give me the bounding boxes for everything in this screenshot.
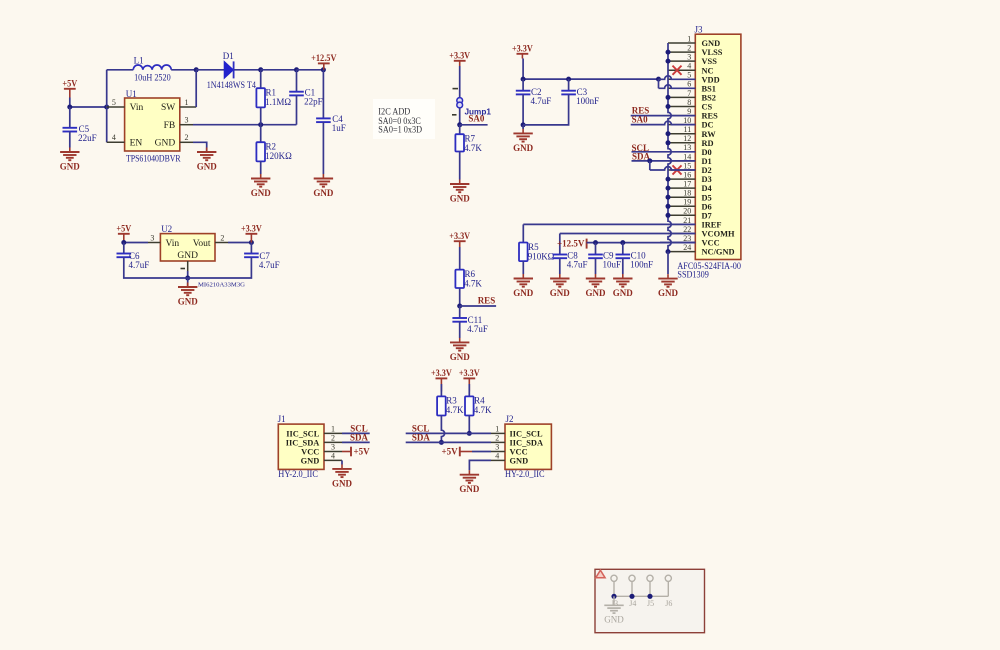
resistor R1 (256, 88, 291, 108)
wire C11 to ground (459, 322, 461, 338)
svg-text:I2C ADD: I2C ADD (378, 106, 410, 116)
wire top rail to L1 (107, 69, 134, 71)
pin 18 J3 D5 (668, 189, 712, 203)
node C1 top junction (294, 67, 299, 72)
svg-text:GND: GND (251, 188, 272, 198)
svg-text:GND: GND (459, 484, 480, 494)
wire L1 to SW node (171, 69, 196, 71)
wire C10 to ground (622, 258, 624, 274)
svg-text:2: 2 (687, 44, 691, 53)
capacitor C9 (588, 250, 621, 269)
mounting block frame (595, 569, 705, 632)
svg-text:+12.5V: +12.5V (311, 53, 337, 63)
wire C2 top (522, 79, 524, 91)
pin 1 J2 (491, 425, 505, 434)
net label RES at J3 (631, 105, 696, 115)
wire R7 to ground (459, 152, 461, 180)
pin 1 U1 SW (180, 98, 196, 107)
pin 5 J3 VDD (668, 71, 720, 85)
svg-text:Vin: Vin (130, 103, 144, 113)
ground C8 GND (550, 274, 571, 298)
svg-text:J5: J5 (647, 599, 654, 608)
wire Vin vertical branch (106, 70, 108, 143)
wire SDA branch to pin 15 (649, 161, 651, 170)
svg-text:U1: U1 (126, 89, 137, 99)
node J3 bus pin 2 (666, 50, 671, 55)
node Vin branch junction (104, 105, 109, 110)
capacitor C6 (117, 251, 150, 270)
pin 15 J3 D2 (668, 161, 712, 175)
svg-text:18: 18 (683, 189, 691, 198)
svg-text:10uH 2520: 10uH 2520 (134, 73, 171, 83)
ground C5 GND (60, 148, 81, 172)
svg-text:EN: EN (130, 139, 143, 149)
svg-text:GND: GND (450, 193, 471, 203)
svg-text:13: 13 (683, 143, 691, 152)
wire top rail to C1 (296, 70, 298, 92)
svg-text:6: 6 (687, 80, 691, 89)
wire C4 to ground (322, 122, 324, 174)
wire +3.3V to R6 (459, 247, 461, 270)
node C10 junction (620, 240, 625, 245)
svg-text:SSD1309: SSD1309 (677, 269, 709, 279)
wire +3.3V to R4 (468, 384, 470, 397)
svg-text:4: 4 (112, 133, 116, 142)
svg-text:5: 5 (687, 71, 691, 80)
wire C9 to ground (595, 258, 597, 274)
wire C6 to ground rail (123, 243, 125, 254)
svg-text:IIC_SDA: IIC_SDA (510, 438, 544, 447)
wire C3 top (568, 79, 570, 91)
wire RES node to C11 (459, 306, 461, 318)
svg-text:16: 16 (683, 171, 691, 180)
svg-text:RES: RES (478, 295, 496, 305)
wire rail to ground (187, 278, 189, 287)
power port +3.3V at R3 (431, 368, 452, 392)
svg-text:+3.3V: +3.3V (449, 50, 470, 60)
svg-text:100nF: 100nF (576, 96, 599, 106)
svg-text:22pF: 22pF (304, 96, 323, 106)
pin 1 J1 (324, 425, 342, 434)
wire SA0 node to R7 (459, 125, 461, 134)
pin 2 Jump1 (452, 114, 457, 116)
pin 6 J3 BS1 (668, 80, 716, 94)
node mounting junction (647, 594, 652, 599)
svg-text:9: 9 (687, 107, 691, 116)
svg-text:GND: GND (450, 352, 471, 362)
wire C6 bottom (124, 257, 188, 278)
wire C7 bottom to ground rail (188, 257, 252, 278)
mounting hole J6 pad (665, 575, 671, 596)
pin 2 J1 (324, 434, 342, 443)
power port +3.3V at Jump1 (449, 50, 470, 66)
net label SA0 (460, 114, 488, 125)
pin 16 J3 D3 (668, 171, 712, 185)
power port +12.5V output (311, 53, 337, 70)
pin 22 J3 VCOMH (668, 225, 735, 239)
svg-text:120KΩ: 120KΩ (265, 151, 292, 161)
wire +3.3V to R3 (440, 384, 442, 397)
svg-text:GND: GND (332, 478, 353, 488)
svg-text:J2: J2 (506, 414, 514, 424)
pin 7 J3 BS2 (668, 89, 716, 103)
pin 21 J3 IREF (668, 216, 722, 230)
connector J1 body (278, 414, 324, 479)
svg-text:R7: R7 (465, 134, 476, 144)
svg-text:+5V: +5V (62, 78, 77, 88)
pin 4 J2 (491, 452, 505, 461)
svg-text:21: 21 (683, 216, 691, 225)
svg-text:4: 4 (687, 62, 691, 71)
wire R6 to RES node (459, 288, 461, 306)
warning triangle (596, 570, 605, 578)
svg-text:4.7uF: 4.7uF (567, 259, 588, 269)
svg-text:3: 3 (150, 233, 154, 242)
wire SW node to D1 anode (196, 69, 224, 71)
ground C4 GND (313, 174, 334, 198)
node FB/R1/R2 junction (258, 122, 263, 127)
svg-text:+3.3V: +3.3V (431, 368, 452, 378)
svg-text:D2: D2 (702, 166, 712, 175)
node J3 bus pin 19 (666, 204, 671, 209)
svg-text:RW: RW (702, 130, 717, 139)
IC U1 body (125, 89, 181, 163)
node J3 bus pin 24 (666, 249, 671, 254)
svg-text:GND: GND (702, 39, 721, 48)
wire C5 to ground (69, 132, 71, 148)
resistor R3 (437, 396, 464, 416)
svg-text:NC/GND: NC/GND (702, 248, 735, 257)
node R3/SDA junction (439, 440, 444, 445)
node C6 junction (121, 240, 126, 245)
svg-text:VSS: VSS (702, 57, 718, 66)
net label SA0 at J3 (631, 114, 696, 124)
net label SDA at J2 (406, 433, 491, 443)
inductor L1 (133, 56, 171, 83)
svg-text:R6: R6 (465, 269, 476, 279)
capacitor C8 (553, 250, 588, 269)
node C2/C3 ground junction (521, 122, 526, 127)
power port +3.3V rail (512, 43, 533, 58)
svg-text:FB: FB (164, 121, 176, 131)
svg-text:17: 17 (683, 180, 691, 189)
svg-text:R2: R2 (266, 142, 277, 152)
svg-text:4.7uF: 4.7uF (129, 260, 150, 270)
ground R2 GND (251, 174, 272, 198)
resistor R4 (465, 396, 492, 416)
node +5V/C5 junction (67, 105, 72, 110)
svg-text:1: 1 (687, 34, 691, 43)
pin 9 J3 RES (668, 107, 718, 121)
pin 1 J3 GND (668, 34, 720, 48)
wire U2 GND to bottom rail (187, 271, 189, 278)
svg-text:IIC_SDA: IIC_SDA (286, 438, 320, 447)
node U2 ground rail junction (185, 276, 190, 281)
wire top rail to R1 (260, 70, 262, 88)
svg-text:2: 2 (331, 434, 335, 443)
svg-text:J3: J3 (695, 25, 704, 35)
svg-text:5: 5 (112, 98, 116, 107)
pin 23 J3 VCC (668, 234, 720, 248)
svg-text:23: 23 (683, 234, 691, 243)
wire +5V stem to node (69, 98, 71, 108)
svg-text:3: 3 (331, 443, 335, 452)
pin 5 U1 Vin (107, 98, 125, 107)
svg-text:4: 4 (331, 452, 335, 461)
pin 14 J3 D1 (668, 152, 712, 166)
resistor R5 (519, 242, 555, 261)
node J3 bus pin 20 (666, 213, 671, 218)
svg-text:910KΩ: 910KΩ (528, 251, 555, 261)
no-connect X pin 15 (673, 165, 682, 174)
no-connect X pin 4 (673, 66, 682, 75)
wire C1 node to +12.5V node (297, 69, 324, 71)
node C3 top junction (566, 77, 571, 82)
svg-text:GND: GND (197, 161, 218, 171)
power port +3.3V at R6 (449, 231, 470, 247)
svg-text:4.7K: 4.7K (464, 143, 482, 153)
svg-text:TPS61040DBVR: TPS61040DBVR (126, 153, 181, 163)
power port +3.3V at R4 (459, 368, 480, 392)
wire +12.5V node to C4 (322, 70, 324, 119)
svg-text:IIC_SCL: IIC_SCL (286, 429, 319, 438)
wire C7 top (250, 243, 252, 254)
svg-text:4.7K: 4.7K (474, 405, 492, 415)
svg-text:22uF: 22uF (78, 133, 97, 143)
mounting hole J4 pad (629, 575, 635, 596)
svg-text:HY-2.0_IIC: HY-2.0_IIC (278, 469, 318, 479)
svg-text:D4: D4 (702, 184, 713, 193)
svg-text:J6: J6 (665, 599, 672, 608)
connector J3 body (695, 25, 741, 260)
node R4/SCL junction (467, 431, 472, 436)
svg-text:SA0: SA0 (632, 114, 649, 124)
ground mounting gray (604, 596, 624, 624)
connector J2 body (505, 414, 551, 479)
svg-text:CS: CS (702, 103, 713, 112)
svg-text:7: 7 (687, 89, 691, 98)
capacitor C7 (244, 251, 280, 270)
pin 4 J1 (324, 452, 342, 461)
svg-text:11: 11 (683, 125, 691, 134)
svg-text:VCC: VCC (301, 448, 319, 457)
wire R2 to ground (260, 161, 262, 174)
svg-text:D1: D1 (223, 51, 234, 61)
node C9 junction (593, 240, 598, 245)
svg-text:Vout: Vout (193, 239, 211, 249)
ground R5 GND (513, 274, 534, 298)
svg-text:GND: GND (301, 456, 320, 465)
wire C9 top (595, 243, 597, 255)
svg-text:+5V: +5V (116, 223, 131, 233)
ground C2/C3 GND (513, 129, 534, 153)
svg-text:3: 3 (495, 443, 499, 452)
svg-text:+12.5V: +12.5V (557, 238, 585, 248)
node J3 bus pin 18 (666, 195, 671, 200)
mounting hole J5 pad (647, 575, 653, 596)
svg-text:12: 12 (683, 134, 691, 143)
svg-text:1N4148WS T4: 1N4148WS T4 (207, 80, 257, 90)
wire R4 to SCL (468, 416, 470, 434)
svg-text:VCOMH: VCOMH (702, 230, 736, 239)
svg-text:SDA: SDA (350, 433, 369, 443)
svg-text:1: 1 (185, 98, 189, 107)
svg-text:J4: J4 (629, 599, 636, 608)
svg-text:DC: DC (702, 121, 714, 130)
wire J2 pin 4 to ground (469, 460, 491, 470)
wire C10 top (622, 243, 624, 255)
net label SCL at J1 (342, 424, 370, 434)
wire +5V to U2 Vin (124, 242, 148, 244)
node J3 bus pin 16 (666, 177, 671, 182)
mounting hole J3 pad (611, 575, 617, 596)
pin 4 U1 EN (107, 133, 125, 142)
wire mounting common (614, 595, 668, 597)
wire C8 to ground (559, 258, 561, 274)
note I2C ADD text (378, 106, 422, 134)
capacitor C1 (289, 87, 322, 106)
svg-text:J1: J1 (278, 414, 286, 424)
wire VCOMH to C8 (560, 233, 696, 235)
svg-text:1: 1 (495, 425, 499, 434)
node VDD tap junction (656, 77, 661, 82)
wire bus to ground (667, 252, 669, 274)
capacitor C5 (63, 124, 97, 143)
svg-text:GND: GND (60, 161, 81, 171)
net label RES (460, 295, 496, 306)
svg-text:+3.3V: +3.3V (241, 223, 262, 233)
ground U1 GND (197, 148, 218, 172)
svg-text:GND: GND (510, 456, 529, 465)
svg-text:SW: SW (161, 103, 175, 113)
wire VCC net (587, 242, 660, 244)
svg-text:10uF: 10uF (603, 259, 622, 269)
power port +12.5V at VCC (557, 238, 587, 248)
net label SDA at J3 (632, 152, 696, 162)
pin 24 J3 NC/GND (668, 243, 735, 257)
resistor R7 (455, 134, 482, 154)
node SDA branch junction (647, 158, 652, 163)
wire IREF to R5 (523, 223, 695, 225)
svg-text:4.7uF: 4.7uF (531, 96, 552, 106)
wire +5V node to U1 input (70, 106, 107, 108)
wire FB net to C1 bottom (193, 124, 297, 126)
wire VDD hop to pin 5 (659, 76, 696, 79)
svg-text:BS2: BS2 (702, 94, 716, 103)
IC U2 body (160, 224, 215, 261)
svg-text:Vin: Vin (166, 239, 180, 249)
svg-text:U2: U2 (161, 224, 172, 234)
svg-text:IREF: IREF (702, 221, 722, 230)
pin 20 J3 D7 (668, 207, 712, 221)
svg-text:D5: D5 (702, 193, 712, 202)
capacitor C4 (316, 114, 346, 133)
wire Vout to +3.3V node (228, 242, 251, 244)
svg-text:VCC: VCC (510, 448, 528, 457)
resistor R6 (455, 269, 482, 289)
svg-text:+5V: +5V (441, 447, 458, 457)
node SA0 junction (457, 122, 462, 127)
svg-text:8: 8 (687, 98, 691, 107)
svg-text:GND: GND (658, 288, 679, 298)
ground J1 GND (332, 464, 353, 488)
resistor R2 (256, 142, 292, 162)
ground C11 GND (450, 338, 471, 362)
pin 17 J3 D4 (668, 180, 713, 194)
svg-text:24: 24 (683, 243, 691, 252)
power port +5V at U2 (116, 223, 131, 242)
svg-text:R1: R1 (266, 88, 277, 98)
wire R5 to ground (522, 261, 524, 274)
svg-text:GND: GND (155, 139, 176, 149)
svg-text:4: 4 (495, 452, 499, 461)
capacitor C10 (616, 250, 654, 269)
ground R7 GND (450, 180, 471, 204)
wire +3.3V stem (522, 59, 524, 80)
node C2 top junction (521, 77, 526, 82)
svg-text:HY-2.0_IIC: HY-2.0_IIC (505, 469, 545, 479)
wire C2 bottom to ground node (522, 94, 524, 125)
svg-text:4.7K: 4.7K (446, 405, 464, 415)
pin 3 J2 (491, 443, 505, 452)
svg-text:GND: GND (178, 296, 199, 306)
pin 19 J3 D6 (668, 198, 712, 212)
svg-text:GND: GND (604, 615, 624, 625)
pin 1 U2 GND (181, 261, 188, 271)
net label SCL at J2 (406, 424, 491, 434)
ground C9 GND (586, 274, 607, 298)
pin 12 J3 RD (668, 134, 714, 148)
power port +5V (input rail) (62, 78, 77, 97)
capacitor C2 (516, 87, 551, 106)
svg-text:+3.3V: +3.3V (449, 231, 470, 241)
svg-text:3: 3 (185, 116, 189, 125)
svg-text:R3: R3 (446, 396, 457, 406)
ground J2 GND (459, 470, 480, 494)
wire D1 cathode to R1 node (234, 69, 260, 71)
svg-text:SA0=1 0x3D: SA0=1 0x3D (378, 125, 422, 135)
pin 2 U1 GND (180, 133, 193, 142)
svg-text:+3.3V: +3.3V (512, 43, 533, 53)
svg-text:4.7uF: 4.7uF (259, 260, 280, 270)
pin 2 J2 (491, 434, 505, 443)
svg-text:GND: GND (513, 288, 534, 298)
svg-text:VLSS: VLSS (702, 48, 723, 57)
wire C3 bottom rail (523, 94, 569, 125)
wire U1 GND pin to ground (193, 142, 207, 152)
pin 3 U2 Vin (148, 233, 160, 242)
wire R3 to SDA with hop over SCL (441, 416, 444, 443)
pin 13 J3 D0 (668, 143, 712, 157)
capacitor C11 (452, 315, 487, 334)
node J3 bus pin 11 (666, 131, 671, 136)
net label SDA at J1 (342, 433, 370, 443)
svg-text:R4: R4 (474, 396, 485, 406)
wire ground stem (522, 125, 524, 129)
svg-text:RES: RES (702, 112, 719, 121)
wire J3 ground bus (668, 43, 671, 252)
svg-text:MI6210A33M3G: MI6210A33M3G (198, 282, 245, 289)
wire FB node to R2 (260, 125, 262, 143)
svg-text:1.1MΩ: 1.1MΩ (265, 97, 291, 107)
node mounting junction (611, 594, 616, 599)
power port +5V at J2 (441, 447, 491, 457)
svg-text:100nF: 100nF (630, 259, 653, 269)
capacitor C3 (561, 87, 599, 106)
svg-text:RD: RD (702, 139, 714, 148)
wire R1 node to C1 node (261, 69, 297, 71)
wire BS1 hop to pin 6 (659, 85, 696, 88)
